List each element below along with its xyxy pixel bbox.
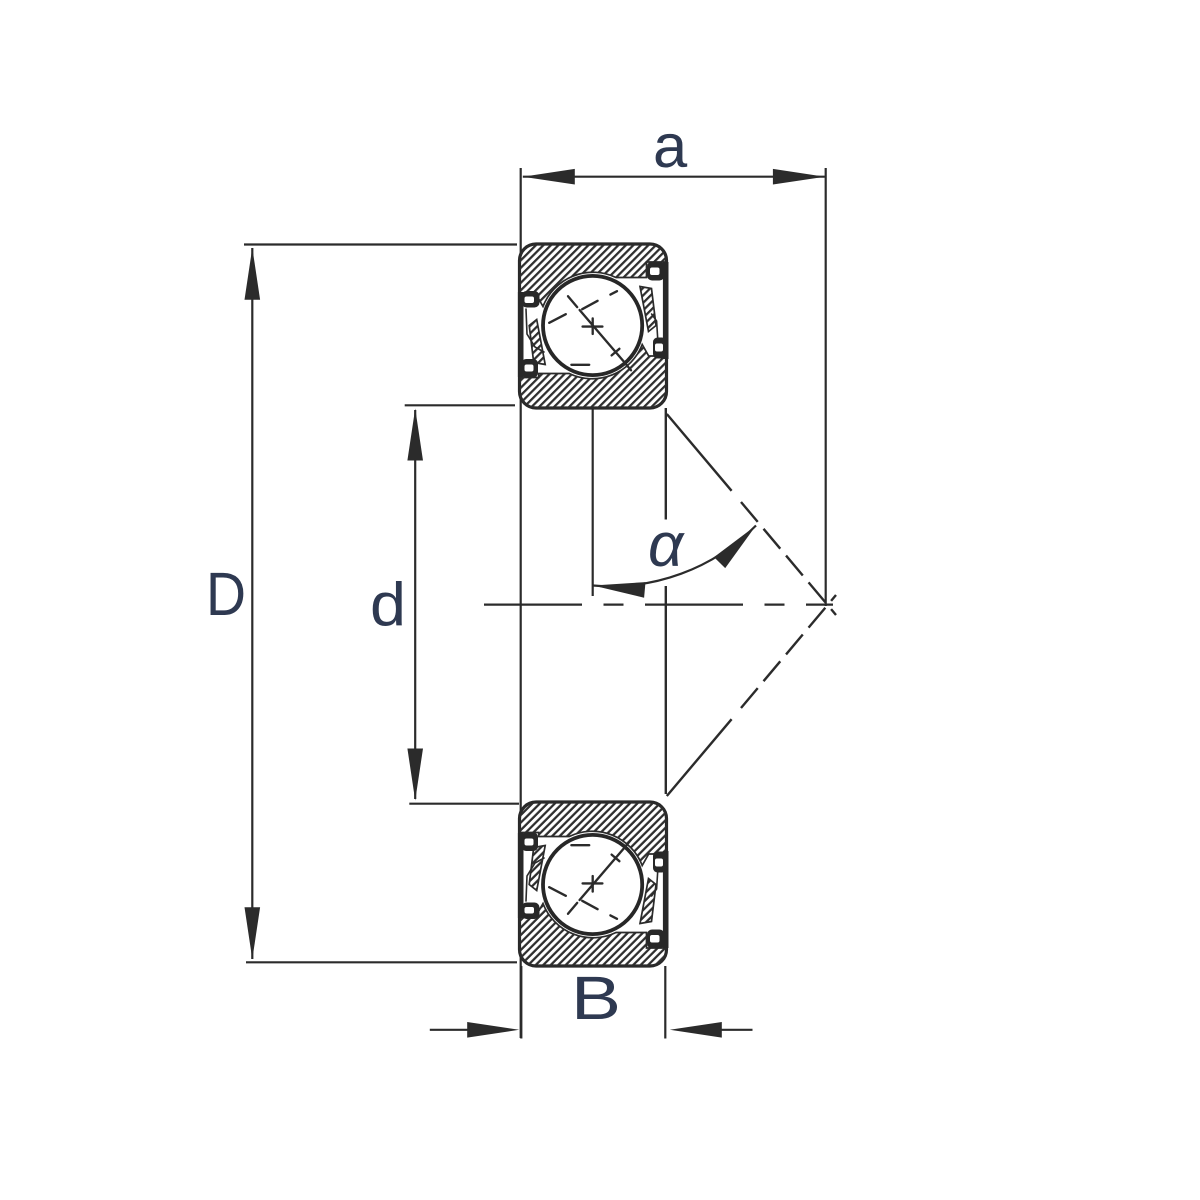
extension line d top (405, 404, 515, 406)
seal anchor bottom-bearing left-outer (522, 833, 539, 852)
contact line lower solid part (667, 719, 732, 796)
seal band left bottom (518, 833, 524, 918)
seal band right (663, 262, 669, 359)
inner ring cross-section (hatched) (520, 345, 667, 409)
extension line right of dimension a (x=825.7) (825, 168, 827, 606)
svg-text:D: D (206, 560, 246, 629)
bearing outer contour top (520, 244, 667, 408)
inner ring left shoulder wedge (529, 320, 545, 365)
arrowhead B left (pointing right) (467, 1022, 519, 1038)
seal anchor bottom-right (653, 338, 667, 359)
ball center line top (x=592.7) (592, 333, 594, 596)
axis center line (dash-dot) (484, 603, 833, 605)
extension line D bottom (246, 961, 517, 963)
arrowhead a left (523, 169, 575, 185)
arrowhead D bottom (245, 907, 261, 959)
extension line B left below bearing (520, 966, 522, 1039)
dimension d line (414, 410, 416, 799)
svg-text:B: B (571, 964, 621, 1033)
outer ring right shoulder wedge (640, 287, 656, 332)
dimension D line (251, 248, 253, 959)
seal anchor bottom-bearing right-outer (653, 852, 667, 873)
contact line lower dashed part to vertex (741, 595, 836, 708)
seal band right bottom (663, 851, 669, 948)
outer ring shoulder wedge bottom (640, 879, 656, 924)
extension line left (bearing left edge extended, x=520.7) (520, 168, 522, 1038)
dimension B line left part (430, 1029, 470, 1031)
seal lip right pocket bottom (652, 870, 658, 896)
seal anchor top-left (522, 291, 540, 308)
seal lip left pocket (526, 309, 544, 352)
bearing right edge extension lower segment (crosses axis to bottom bearing corner) (665, 586, 667, 794)
bearing right edge extension upper segment (665, 408, 667, 520)
seal band left (518, 292, 524, 377)
ball top (543, 276, 642, 375)
seal anchor bottom-bearing left-inner (522, 903, 540, 920)
svg-text:a: a (653, 112, 688, 181)
svg-text:d: d (370, 571, 406, 640)
arrowhead B right (pointing left) (670, 1022, 722, 1038)
seal anchor bottom-bearing right-inner (647, 930, 665, 949)
dimension B line right part (720, 1029, 753, 1031)
inner ring shoulder wedge bottom (529, 846, 545, 891)
extension line B right below bearing (664, 966, 666, 1039)
angle alpha arc (593, 526, 756, 587)
seal lip left pocket bottom (526, 858, 544, 901)
bearing outer contour bottom (520, 802, 667, 966)
contact line upper dashed part to vertex (741, 502, 836, 615)
dimension a line (523, 176, 825, 178)
arrowhead a right (773, 169, 825, 185)
ball bottom (543, 835, 642, 934)
seal anchor top-right (647, 262, 665, 281)
extension line D top (244, 243, 517, 245)
alpha arc arrowhead left (593, 582, 646, 598)
ball contact dash-dot marks (549, 291, 631, 370)
alpha arc arrowhead right (714, 526, 756, 569)
outer ring cross-section bottom (hatched) (520, 904, 667, 967)
seal anchor bottom-left (522, 359, 539, 378)
arrowhead d top (407, 409, 423, 461)
arrowhead d bottom (407, 749, 423, 801)
ball bottom dash-dot marks (549, 840, 631, 919)
inner ring cross-section bottom (hatched) (520, 802, 667, 866)
seal lip right pocket (652, 314, 658, 340)
arrowhead D top (245, 248, 261, 300)
outer ring cross-section (hatched) (520, 244, 667, 307)
extension line d bottom (409, 803, 519, 805)
contact line upper solid part (667, 414, 732, 491)
svg-text:α: α (648, 511, 685, 580)
